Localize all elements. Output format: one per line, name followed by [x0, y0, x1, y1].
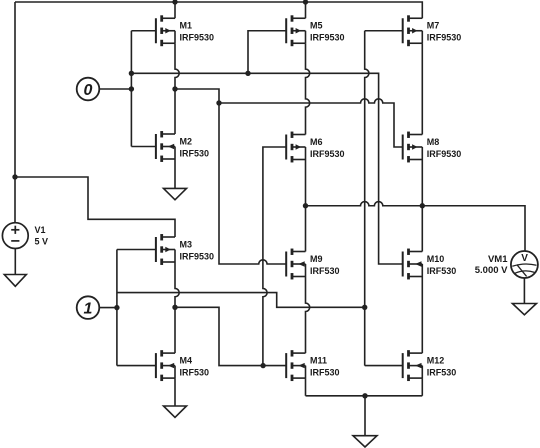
voltmeter VM1: [511, 251, 538, 278]
wire M1 drain to M2 drain: [175, 43, 179, 134]
wire VDD branch to M3 source: [15, 177, 175, 237]
svg-text:IRF9530: IRF9530: [310, 33, 345, 43]
node junction output at right column: [420, 203, 425, 208]
transistor M9 IRF530: [286, 249, 339, 280]
wire node 1 to gate bus: [99, 307, 117, 309]
node junction NOT0 at y89: [172, 86, 177, 91]
svg-text:M12: M12: [427, 355, 445, 365]
transistor M12 IRF530: [403, 350, 457, 381]
wire output to voltmeter VM1: [306, 202, 526, 251]
wire NOT0 south to M9 gate: [219, 103, 286, 264]
svg-text:IRF9530: IRF9530: [427, 149, 462, 159]
transistor M2 IRF530: [156, 131, 209, 162]
svg-text:V: V: [521, 253, 528, 264]
wire M5 gate bus: [248, 31, 286, 74]
wire M11 source to bottom rail: [305, 378, 307, 396]
wire node 0 to gate bus: [99, 88, 131, 90]
wire V1 positive terminal riser: [14, 2, 16, 223]
ground below bottom rail: [353, 436, 377, 447]
svg-text:1: 1: [84, 300, 93, 317]
svg-text:IRF530: IRF530: [180, 368, 210, 378]
transistor M8 IRF9530: [403, 132, 462, 163]
svg-text:M1: M1: [180, 21, 193, 31]
wire M4 gate lead: [117, 365, 156, 367]
wire M6 gate bus to M11 gate: [263, 147, 286, 366]
wire NOT0 branch east jog: [175, 89, 219, 103]
svg-text:M5: M5: [310, 21, 323, 31]
label VM1 reading: [475, 254, 508, 276]
svg-text:0: 0: [84, 82, 93, 99]
svg-text:IRF530: IRF530: [310, 368, 340, 378]
svg-text:IRF530: IRF530: [427, 266, 457, 276]
node junction NOT1 at M11 gate lead: [260, 363, 265, 368]
wire M8 drain to M10 drain: [421, 160, 423, 252]
wire NOT1 branch to M11 gate: [175, 307, 286, 365]
svg-text:5.000 V: 5.000 V: [475, 265, 508, 276]
node junction output at middle column: [303, 203, 308, 208]
node junction node0 bus at y73: [129, 71, 134, 76]
ground below M2: [164, 188, 187, 199]
wire bottom source rail M11-M12: [306, 395, 423, 397]
svg-text:5 V: 5 V: [35, 237, 49, 247]
wire node 1 gate bus M3-M4: [116, 250, 118, 366]
wire bottom rail to ground: [364, 396, 366, 436]
node junction node1 at M7-M12 bus: [362, 305, 367, 310]
wire M3 drain to M4 drain: [175, 262, 179, 353]
svg-text:M7: M7: [427, 21, 440, 31]
svg-text:M3: M3: [180, 239, 193, 249]
wire VDD top rail from V1 to M7 source: [15, 2, 422, 18]
wire M12 source to bottom rail: [421, 378, 423, 396]
svg-text:M11: M11: [310, 355, 327, 365]
wire M2 gate lead: [131, 146, 156, 148]
node junction node1 bus: [114, 305, 119, 310]
wire M1 source to VDD rail: [174, 2, 176, 18]
svg-text:VM1: VM1: [488, 254, 508, 265]
wire M1 gate lead: [131, 30, 156, 32]
node junction node0 at M5 bus: [245, 71, 250, 76]
wire M5 drain to M6 source: [306, 43, 310, 134]
wire M4 source to ground: [174, 378, 176, 406]
node VDD junction at M5 source: [303, 0, 308, 5]
svg-text:M4: M4: [180, 355, 193, 365]
ground below V1: [4, 275, 26, 287]
node junction node0 bus at y89: [129, 86, 134, 91]
node junction NOT0 jog: [216, 100, 221, 105]
node VDD junction at V1 riser: [12, 174, 17, 179]
svg-text:IRF9530: IRF9530: [180, 33, 215, 43]
wire NOT0 east to M8 gate: [219, 99, 403, 147]
svg-text:IRF530: IRF530: [180, 148, 210, 158]
svg-text:IRF530: IRF530: [310, 266, 340, 276]
wire node 0 east to M10 gate: [131, 73, 402, 264]
wire node 1 east to M7-M12 gate bus: [117, 293, 365, 308]
node 0 input terminal: [77, 78, 100, 101]
node 1 input terminal: [77, 296, 100, 319]
ground below M4: [164, 406, 187, 417]
wire node 0 gate bus M1-M2: [130, 31, 132, 147]
svg-text:IRF530: IRF530: [427, 368, 457, 378]
svg-text:M8: M8: [427, 137, 440, 147]
svg-text:M10: M10: [427, 254, 445, 264]
wire M9 source to M11 drain: [306, 277, 310, 354]
ground below VM1: [512, 304, 536, 315]
wire M5 source to VDD rail: [305, 2, 307, 18]
transistor M10 IRF530: [403, 249, 457, 280]
wire M3 gate lead: [117, 249, 156, 251]
wire M10 source to M12 drain: [421, 277, 423, 354]
svg-text:M2: M2: [180, 136, 193, 146]
wire V1 negative terminal to ground: [14, 249, 16, 275]
svg-text:M6: M6: [310, 137, 323, 147]
svg-text:IRF9530: IRF9530: [310, 149, 345, 159]
wire M7 gate lead: [365, 30, 403, 32]
svg-text:M9: M9: [310, 254, 323, 264]
wire M12 gate lead: [365, 365, 403, 367]
svg-text:V1: V1: [35, 225, 46, 235]
transistor M4 IRF530: [156, 350, 209, 381]
voltage source V1 5V: [2, 223, 48, 249]
node junction NOT1: [172, 305, 177, 310]
transistor M1 IRF9530: [156, 15, 214, 46]
transistor M3 IRF9530: [156, 234, 214, 265]
node junction bottom rail: [362, 393, 367, 398]
transistor M7 IRF9530: [403, 15, 462, 46]
wire VM1 to ground: [523, 278, 525, 304]
wire M6 drain to M9 drain: [305, 160, 307, 252]
wire M7 drain to M8 source: [421, 43, 423, 134]
wire M2 source to ground: [174, 159, 176, 188]
svg-text:IRF9530: IRF9530: [427, 33, 462, 43]
transistor M6 IRF9530: [286, 132, 344, 163]
node VDD junction at M1 source: [172, 0, 177, 5]
wire M7-M12 gate bus: [365, 31, 369, 366]
transistor M11 IRF530: [286, 350, 339, 381]
transistor M5 IRF9530: [286, 15, 344, 46]
svg-text:IRF9530: IRF9530: [180, 251, 215, 261]
